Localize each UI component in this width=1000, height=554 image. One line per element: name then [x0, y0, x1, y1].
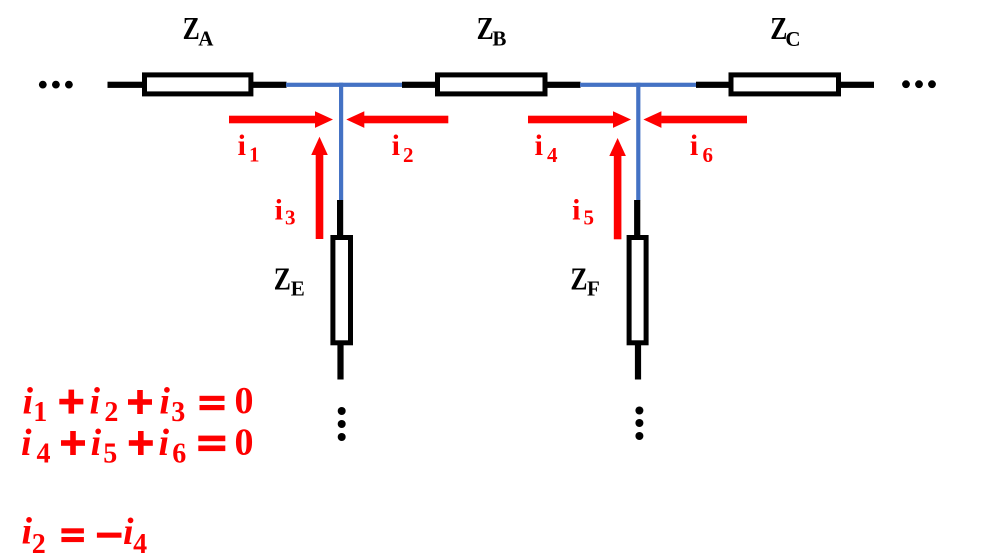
- equation 2: i4 + i5 + i6 = 0: [21, 422, 254, 470]
- current arrow i2: [346, 111, 448, 128]
- svg-text:4: 4: [547, 143, 558, 167]
- current arrow i1: [229, 111, 333, 128]
- continuation dots below ZE: [338, 407, 346, 441]
- label ZE: [274, 262, 305, 300]
- svg-text:0: 0: [235, 380, 254, 422]
- wire node2 to ZC: [696, 82, 730, 88]
- wire below ZF: [635, 345, 641, 380]
- resistor ZA: [145, 75, 251, 94]
- wire ZA right lead: [253, 82, 287, 88]
- continuation dots left: [39, 81, 73, 89]
- resistor ZB: [438, 75, 546, 94]
- resistor ZC: [731, 75, 839, 94]
- svg-text:i: i: [159, 381, 170, 423]
- svg-text:6: 6: [703, 143, 714, 167]
- svg-text:i: i: [91, 422, 102, 464]
- label ZC: [770, 12, 800, 51]
- svg-text:2: 2: [104, 397, 118, 428]
- wire blue segment node 1 horizontal: [286, 83, 403, 87]
- wire ZC right lead: [841, 82, 874, 88]
- label i3: [275, 193, 296, 229]
- resistor ZF: [629, 238, 646, 343]
- svg-text:E: E: [291, 276, 305, 300]
- svg-text:1: 1: [249, 143, 260, 167]
- svg-text:Z: Z: [477, 12, 494, 47]
- svg-text:i: i: [275, 193, 283, 226]
- current arrow i3: [311, 137, 328, 239]
- svg-text:i: i: [159, 422, 170, 464]
- svg-text:i: i: [392, 129, 400, 162]
- wire black lead node1 to ZE: [337, 200, 343, 237]
- wire below ZE: [337, 345, 343, 380]
- current arrow i4: [528, 111, 631, 128]
- svg-text:B: B: [492, 27, 506, 51]
- wire black segment node1 to ZB: [402, 82, 436, 88]
- svg-text:4: 4: [133, 529, 147, 554]
- svg-text:i: i: [535, 129, 543, 162]
- svg-text:i: i: [23, 381, 34, 423]
- equation 1: i1 + i2 + i3 = 0: [23, 380, 254, 428]
- svg-text:F: F: [587, 276, 600, 300]
- svg-text:C: C: [785, 27, 800, 51]
- label i5: [572, 193, 594, 229]
- svg-text:2: 2: [403, 143, 414, 167]
- label ZA: [183, 12, 215, 51]
- svg-text:i: i: [572, 193, 580, 226]
- wire black lead node2 to ZF: [634, 200, 640, 237]
- svg-text:0: 0: [235, 422, 254, 464]
- label i6: [690, 129, 713, 167]
- svg-text:3: 3: [285, 205, 296, 229]
- svg-text:i: i: [690, 129, 698, 162]
- continuation dots right: [902, 80, 936, 88]
- svg-text:i: i: [238, 129, 246, 162]
- label i4: [535, 129, 558, 167]
- equation 3: i2 = -i4: [22, 510, 148, 554]
- continuation dots below ZF: [635, 407, 643, 441]
- label i1: [238, 129, 260, 167]
- current arrow i6: [643, 111, 747, 128]
- label ZF: [570, 262, 599, 300]
- current arrow i5: [609, 138, 626, 239]
- svg-text:5: 5: [103, 438, 117, 469]
- wire ZB right lead: [547, 82, 581, 88]
- svg-text:2: 2: [32, 529, 46, 554]
- resistor ZE: [333, 238, 351, 343]
- svg-text:Z: Z: [183, 12, 200, 47]
- label i2: [392, 129, 414, 167]
- wire left lead into ZA: [108, 82, 144, 88]
- svg-text:A: A: [198, 27, 214, 51]
- svg-text:1: 1: [33, 397, 47, 428]
- svg-text:i: i: [21, 422, 32, 464]
- node 2 blue vertical: [636, 83, 640, 201]
- label ZB: [477, 12, 507, 51]
- svg-text:Z: Z: [570, 262, 587, 297]
- svg-text:5: 5: [584, 205, 595, 229]
- svg-text:3: 3: [171, 397, 185, 428]
- svg-text:6: 6: [172, 438, 186, 469]
- node 1 blue vertical: [339, 83, 343, 201]
- svg-text:4: 4: [37, 438, 51, 469]
- svg-text:Z: Z: [274, 262, 291, 297]
- wire blue segment node 2 horizontal: [580, 83, 696, 87]
- svg-text:i: i: [90, 381, 101, 423]
